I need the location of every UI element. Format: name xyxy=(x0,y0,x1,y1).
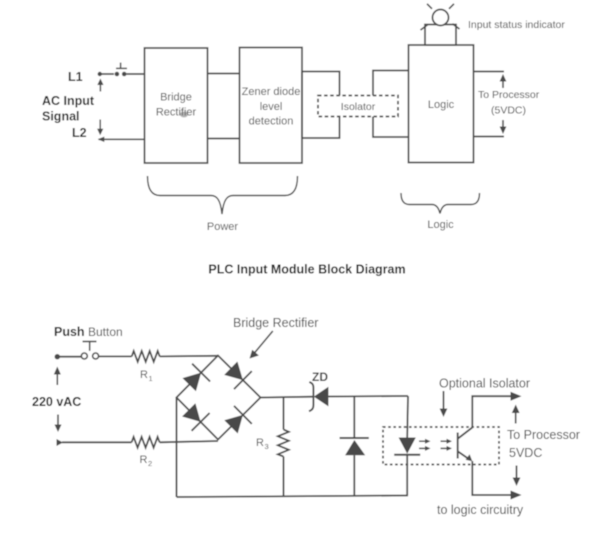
wire bridge right corner to LED branch (top rail) xyxy=(261,396,314,399)
diode D5 (points up) xyxy=(340,438,369,455)
up arrow (5VDC) xyxy=(512,405,520,424)
svg-text:1: 1 xyxy=(149,374,153,383)
svg-text:Button: Button xyxy=(88,325,123,339)
svg-text:To Processor: To Processor xyxy=(478,89,540,101)
svg-text:Logic: Logic xyxy=(428,99,455,111)
wire R1 to bridge top corner xyxy=(160,355,218,358)
bridge diode D2 (upper-right) xyxy=(224,362,252,390)
down arrow to processor xyxy=(500,120,507,134)
phototransistor Q1 xyxy=(458,428,473,460)
svg-text:PLC Input Module Block Diagram: PLC Input Module Block Diagram xyxy=(208,263,405,277)
bridge diode D4 (lower-right) xyxy=(224,406,252,434)
label AC Input Signal xyxy=(42,94,95,124)
optocoupler dashed box xyxy=(383,427,499,465)
emitter arrowhead xyxy=(466,454,473,461)
switch contact on L1 xyxy=(115,72,127,77)
down arrow on L2 input xyxy=(97,120,103,136)
block Bridge Rectifier xyxy=(145,48,208,163)
label To Processor (5VDC) xyxy=(478,89,540,117)
svg-text:Bridge: Bridge xyxy=(160,92,192,104)
connector stub from zener box xyxy=(302,72,340,139)
node: L1 terminal dot xyxy=(98,72,102,76)
svg-text:R: R xyxy=(140,454,148,466)
bridge diode D3 (lower-left) xyxy=(182,403,210,431)
svg-text:Input status indicator: Input status indicator xyxy=(468,19,565,31)
wire terminal to push button xyxy=(57,356,81,358)
svg-text:Optional Isolator: Optional Isolator xyxy=(439,377,530,391)
svg-text:L2: L2 xyxy=(72,126,87,140)
svg-text:Rectifier: Rectifier xyxy=(156,107,197,119)
collector wire up and arrow to processor xyxy=(472,392,521,428)
svg-text:level: level xyxy=(260,101,283,113)
node: lower terminal arrowhead xyxy=(57,439,64,446)
resistor R3 branch wire (top) xyxy=(283,397,285,430)
bridge rectifier diamond xyxy=(177,356,261,440)
wire bridge left corner down to rail xyxy=(176,398,178,498)
brace Power xyxy=(148,176,298,214)
connector stub into logic box xyxy=(373,71,410,138)
diode D5 branch wire (top) xyxy=(353,396,355,438)
LED branch wire (bottom) xyxy=(406,455,408,496)
resistor R2 xyxy=(132,437,160,448)
svg-text:R: R xyxy=(140,369,148,381)
zener diode ZD xyxy=(309,382,328,411)
wire logic to processor (bottom) xyxy=(474,136,505,138)
svg-text:3: 3 xyxy=(265,442,269,451)
svg-text:Logic: Logic xyxy=(427,219,454,231)
wire push button to R1 xyxy=(99,355,132,357)
svg-text:ZD: ZD xyxy=(312,370,328,384)
lamp: input status indicator xyxy=(421,4,460,45)
down arrow (220 vAC bottom) xyxy=(55,415,62,433)
wire R2 to bridge bottom corner xyxy=(160,441,218,442)
svg-text:Signal: Signal xyxy=(42,110,80,124)
svg-text:L1: L1 xyxy=(68,70,83,84)
opto LED (points down) xyxy=(394,438,420,455)
block Zener diode level detection xyxy=(240,48,303,164)
diode D5 branch wire (bottom) xyxy=(353,455,355,496)
resistor R1 xyxy=(132,351,160,362)
svg-text:R: R xyxy=(256,437,264,449)
isolator block (dashed) xyxy=(318,96,398,117)
push button actuator xyxy=(83,342,97,351)
svg-text:Bridge Rectifier: Bridge Rectifier xyxy=(233,316,318,330)
LED branch wire (top, from top rail corner) xyxy=(406,396,409,438)
svg-text:AC Input: AC Input xyxy=(42,94,95,108)
svg-text:Zener diode: Zener diode xyxy=(242,86,301,98)
up arrow on L1 input xyxy=(97,79,103,92)
svg-text:2: 2 xyxy=(148,459,152,468)
svg-text:Push: Push xyxy=(54,325,85,339)
resistor R3 branch wire (bottom) xyxy=(283,457,285,497)
svg-text:Isolator: Isolator xyxy=(341,101,376,113)
svg-text:To Processor: To Processor xyxy=(507,428,580,442)
resistor R3 xyxy=(278,430,289,457)
brace Logic xyxy=(401,193,480,214)
wire lower terminal to R2 xyxy=(62,441,132,443)
up arrow to processor xyxy=(500,74,507,88)
wire logic to processor (top) xyxy=(474,71,505,73)
wire L1 xyxy=(99,73,145,75)
push button contacts xyxy=(81,353,98,359)
svg-text:5VDC: 5VDC xyxy=(509,446,542,460)
bottom rail xyxy=(177,496,409,498)
node: L2 terminal arrowhead xyxy=(98,137,105,142)
wire L2 xyxy=(99,138,145,140)
svg-text:Power: Power xyxy=(207,221,239,233)
wire bridge to zener (top) xyxy=(208,73,240,75)
svg-text:detection: detection xyxy=(249,116,294,128)
node: input terminal dot xyxy=(55,354,60,359)
block Logic xyxy=(409,45,474,163)
light arrows xyxy=(419,439,452,451)
bridge diode D1 (upper-left) xyxy=(183,364,211,392)
down arrow (5VDC) xyxy=(513,466,521,487)
emitter wire down and arrow to logic circuitry xyxy=(472,461,521,500)
wire bridge to zener (bottom) xyxy=(208,138,240,140)
svg-text:220 vAC: 220 vAC xyxy=(32,395,81,409)
up arrow (220 vAC top) xyxy=(54,367,61,386)
svg-text:(5VDC): (5VDC) xyxy=(491,105,526,117)
svg-text:to logic circuitry: to logic circuitry xyxy=(437,503,524,517)
